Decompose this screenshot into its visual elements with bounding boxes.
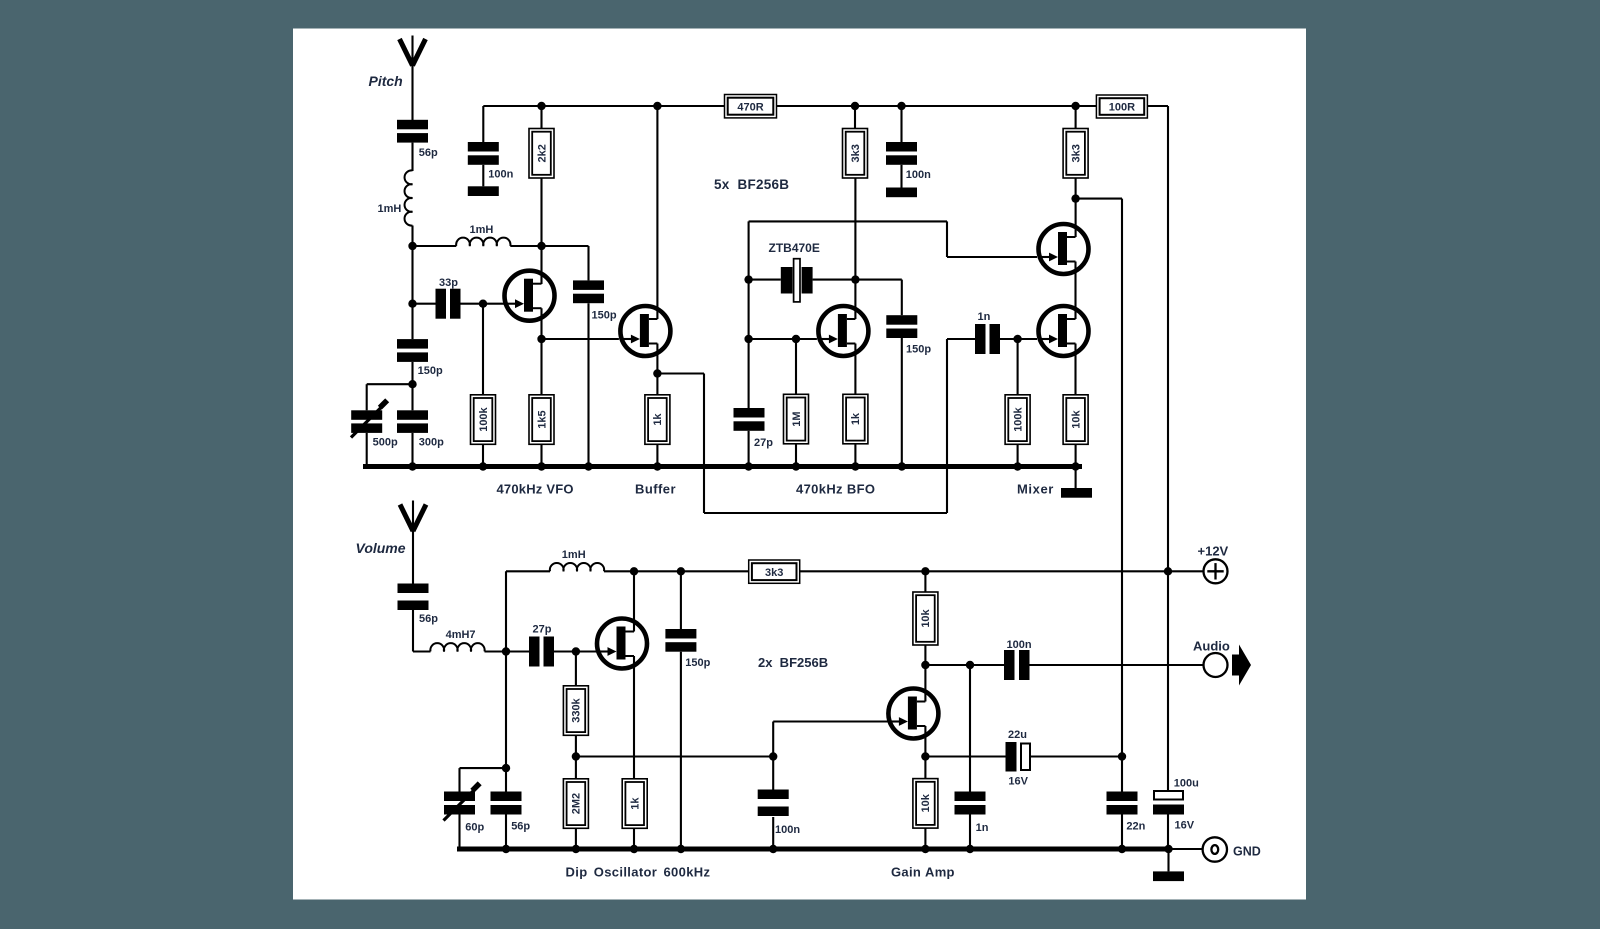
svg-text:GND: GND: [1233, 845, 1261, 859]
wire Q2 source to 1k: [656, 344, 658, 395]
wire 1mH volume row: [506, 570, 550, 572]
trimmer capacitor 500p: [351, 398, 398, 448]
junction dip tank node: [502, 647, 510, 655]
wire source node to 22u: [925, 755, 1005, 757]
wire 3k3 to Q3 drain: [854, 178, 856, 319]
wire buffer output to mixer gate: [657, 372, 704, 374]
wire to 1n gain: [969, 665, 971, 792]
wire gate node to 100k: [482, 304, 484, 395]
junction bias node: [572, 752, 580, 760]
wire dip node down to trimmer row: [505, 652, 507, 769]
wire BFO gate net to mixer top gate: [749, 220, 947, 222]
resistor 2k2: [529, 129, 554, 179]
wire Q4 source to 10k: [1074, 344, 1076, 395]
svg-text:470kHz BFO: 470kHz BFO: [796, 482, 875, 497]
stub rail to bottom ground symbol: [1167, 849, 1169, 871]
svg-text:1n: 1n: [976, 822, 989, 834]
ground symbol (BFO decoupling): [886, 188, 917, 198]
svg-text:500p: 500p: [373, 437, 398, 449]
wire rail to Q2 drain: [656, 106, 658, 319]
wire antenna to 56p: [411, 64, 413, 120]
svg-text:56p: 56p: [511, 821, 530, 833]
junction mixer gate node: [1013, 335, 1021, 343]
wire dip node to 27p: [506, 650, 529, 652]
capacitor 100u 16V (electrolytic): [1153, 778, 1199, 832]
resistor 3k3 (volume feed): [749, 560, 800, 583]
svg-text:56p: 56p: [419, 613, 438, 625]
wire 1M to ground rail: [795, 444, 797, 467]
resistor 3k3 (BFO drain): [843, 129, 868, 179]
wire 22n node down: [1121, 757, 1123, 792]
wire gate node to FET Q1: [483, 303, 504, 305]
wire 150p to 300p: [411, 362, 413, 410]
capacitor 150p (BFO): [886, 315, 931, 355]
terminal GND: [1203, 837, 1261, 861]
junction mixer output node: [1071, 194, 1079, 202]
wire branch to 100n dip: [772, 757, 774, 790]
wire Q7 source to source node: [924, 726, 926, 779]
svg-text:300p: 300p: [419, 437, 444, 449]
wire 150p dip top: [680, 571, 682, 629]
capacitor 100n (dip source): [758, 790, 801, 837]
svg-text:4mH7: 4mH7: [446, 629, 476, 641]
wire 100k to ground rail: [482, 444, 484, 466]
svg-text:100n: 100n: [906, 169, 931, 181]
wire 100n to ground symbol: [482, 165, 484, 187]
svg-text:Pitch: Pitch: [369, 73, 403, 89]
svg-text:22u: 22u: [1008, 729, 1027, 741]
svg-text:1M: 1M: [791, 411, 803, 426]
resistor 1k (buffer): [645, 395, 670, 445]
svg-text:150p: 150p: [685, 657, 710, 669]
wire 100k mixer to ground rail: [1017, 444, 1019, 466]
svg-text:10k: 10k: [920, 793, 932, 812]
wire bias row to gain gate: [576, 755, 773, 757]
wire 33p to gate node: [461, 303, 484, 305]
capacitor 100n (output): [1004, 639, 1032, 680]
capacitor 33p: [436, 277, 461, 319]
capacitor 1n (mixer gate): [975, 311, 1000, 354]
wire 4mH7 to dip node: [485, 650, 507, 652]
wire 60p to ground rail: [458, 815, 460, 850]
wire 1mH coupling to 150p column: [510, 245, 588, 247]
junction rail/3k3 BFO: [851, 102, 859, 110]
wire node A down tank column: [411, 246, 413, 339]
svg-text:1k: 1k: [850, 412, 862, 425]
svg-text:1k5: 1k5: [536, 410, 548, 428]
inductor 4mH7: [430, 629, 484, 652]
wire 2M2 to ground rail: [575, 828, 577, 849]
junction rail/3k3 mixer: [1071, 102, 1079, 110]
junction gain gate branch: [769, 752, 777, 760]
svg-text:2M2: 2M2: [571, 793, 583, 814]
wire crystal node to 150p BFO: [901, 280, 903, 316]
wire 300p to ground rail: [411, 433, 413, 467]
wire gate node to Q4: [1018, 338, 1037, 340]
wire 56p dip to ground rail: [505, 815, 507, 850]
wire 3k3 volume to +12V terminal: [800, 570, 1204, 572]
transistor Q4 (mixer lower, BF256B): [1038, 306, 1089, 356]
wire Q1 source to 1k5: [540, 308, 542, 395]
svg-text:1n: 1n: [978, 311, 991, 323]
junction dots on dip/gain ground rail: [502, 845, 1173, 853]
svg-text:3k3: 3k3: [765, 567, 783, 579]
wire 1k5 to ground rail: [540, 444, 542, 466]
transistor Q3 (470kHz BFO, BF256B): [817, 306, 868, 356]
resistor 330k: [563, 686, 588, 736]
svg-text:22n: 22n: [1126, 821, 1145, 833]
capacitor 150p (dip): [665, 629, 710, 669]
svg-text:100R: 100R: [1109, 102, 1135, 114]
wire 10k to Q7 drain: [924, 645, 926, 702]
capacitor 56p (dip): [491, 792, 531, 833]
junction rail/Q2 drain: [653, 102, 661, 110]
junction Q6 drain/1mH row: [630, 567, 638, 575]
wire 150p dip to ground rail: [680, 652, 682, 849]
svg-text:150p: 150p: [906, 344, 931, 356]
wire 1mH to node A: [411, 226, 413, 247]
wire Q3 source to 1k: [854, 344, 856, 395]
svg-text:Volume: Volume: [356, 540, 406, 556]
inductor 1mH (pitch, vertical): [378, 170, 413, 225]
junction Q6 gate node: [572, 647, 580, 655]
pitch antenna: [400, 36, 426, 68]
terminal +12V: [1198, 544, 1229, 584]
inductor 1mH (volume): [550, 549, 604, 571]
transistor Q2 (buffer, BF256B): [619, 306, 670, 356]
resistor 2M2: [563, 779, 588, 829]
svg-text:60p: 60p: [465, 822, 484, 834]
wire +12V to 10k upper: [924, 571, 926, 592]
svg-text:27p: 27p: [754, 437, 773, 449]
wire crystal right lead: [813, 279, 902, 281]
junction Q2 source node: [653, 369, 661, 377]
svg-text:3k3: 3k3: [850, 144, 862, 162]
svg-text:1k: 1k: [652, 413, 664, 426]
junction Q1 source node: [537, 335, 545, 343]
wire BFO gate row: [749, 338, 817, 340]
audio output arrow: [1232, 645, 1251, 686]
wire gate node to 100k mixer: [1017, 339, 1019, 395]
crystal resonator ZTB470E: [769, 241, 820, 302]
wire 10k lower to ground rail: [924, 828, 926, 849]
wire 100n dip to ground rail: [772, 817, 774, 849]
transistor Q6 (dip oscillator, BF256B): [596, 619, 647, 669]
junction dots on VFO/BFO ground rail: [408, 462, 1080, 470]
wire branch to 500p trimmer: [367, 383, 413, 385]
inductor 1mH (coupling, horizontal): [456, 224, 510, 246]
svg-text:470kHz VFO: 470kHz VFO: [497, 482, 574, 497]
resistor 100k (VFO gate): [471, 395, 496, 445]
svg-text:33p: 33p: [439, 277, 458, 289]
wire rail to 3k3 mixer: [1075, 106, 1077, 129]
wire 10k mixer to ground rail: [1075, 444, 1077, 466]
resistor 10k (mixer source): [1063, 395, 1088, 445]
svg-text:27p: 27p: [533, 624, 552, 636]
svg-text:ZTB470E: ZTB470E: [769, 241, 820, 255]
white schematic page: [293, 29, 1306, 900]
wire source node to Q2 gate: [542, 338, 619, 340]
svg-text:+12V: +12V: [1198, 544, 1229, 559]
junction 22n node: [1118, 752, 1126, 760]
resistor 3k3 (mixer drain): [1063, 129, 1088, 179]
wire 1k BFO to ground rail: [854, 444, 856, 467]
svg-text:100k: 100k: [478, 406, 490, 431]
junction +12V/10k upper: [921, 567, 929, 575]
capacitor 56p (volume): [398, 584, 439, 626]
svg-text:56p: 56p: [419, 147, 438, 159]
svg-text:150p: 150p: [418, 365, 443, 377]
wire down to 150p feedback: [587, 246, 589, 280]
wire 330k to bias node: [575, 735, 577, 779]
wire +12V column to 100u: [1167, 571, 1169, 791]
terminal Audio: [1193, 639, 1230, 678]
transistor Q5 (mixer upper, BF256B): [1038, 224, 1089, 274]
wire rail to 100n BFO: [900, 106, 902, 142]
capacitor 150p (pitch tank): [397, 339, 443, 377]
svg-text:16V: 16V: [1008, 775, 1028, 787]
wire crystal left lead: [749, 279, 781, 281]
junction crystal left: [744, 275, 752, 283]
svg-text:330k: 330k: [571, 697, 583, 722]
svg-text:150p: 150p: [592, 310, 617, 322]
resistor 100k (mixer gate): [1005, 395, 1030, 445]
svg-text:Gain Amp: Gain Amp: [891, 865, 955, 880]
junction 33p row: [408, 300, 416, 308]
svg-text:10k: 10k: [920, 608, 932, 627]
svg-text:Mixer: Mixer: [1017, 482, 1054, 497]
wire 3k3 to Q5 drain: [1075, 178, 1077, 237]
junction drain node VFO: [537, 242, 545, 250]
svg-text:Buffer: Buffer: [635, 482, 676, 497]
svg-text:1mH: 1mH: [470, 224, 494, 236]
svg-text:10k: 10k: [1070, 409, 1082, 428]
capacitor 100n (VFO decoupling): [468, 142, 514, 181]
volume antenna: [400, 501, 426, 534]
junction +12V column: [1164, 567, 1172, 575]
wire 2k2 to Q1 drain: [540, 178, 542, 284]
svg-text:Audio: Audio: [1193, 639, 1230, 654]
capacitor 100n (BFO decoupling): [886, 142, 931, 181]
svg-text:1k: 1k: [630, 797, 642, 810]
resistor 10k (gain source): [913, 779, 938, 829]
svg-text:100n: 100n: [1007, 639, 1032, 651]
resistor 1k (BFO): [843, 394, 868, 444]
VFO/BFO ground rail: [363, 464, 1082, 469]
capacitor 56p (pitch): [397, 120, 438, 159]
capacitor 27p (BFO): [734, 408, 774, 449]
junction audio node: [921, 661, 929, 669]
wire 150p feedback to ground rail: [587, 303, 589, 466]
capacitor 22n: [1107, 792, 1146, 833]
wire Q6 drain to 1mH row: [633, 571, 635, 631]
junction trimmer branch: [408, 380, 416, 388]
capacitor 300p: [397, 410, 444, 448]
wire antenna to 56p volume: [412, 529, 414, 586]
wire 22n to ground rail: [1121, 815, 1123, 850]
wire to 1M: [795, 339, 797, 394]
wire 1k buffer to ground rail: [656, 444, 658, 466]
wire gate node to Q6: [576, 650, 597, 652]
junction BFO gate row: [744, 335, 752, 343]
top supply rail wire: [483, 105, 724, 107]
junction rail/100n BFO: [897, 102, 905, 110]
junction 1M top: [792, 335, 800, 343]
junction gate node VFO: [479, 300, 487, 308]
resistor 100R: [1096, 95, 1147, 118]
wire rail to GND terminal: [1171, 848, 1203, 850]
ground symbol (mixer): [1061, 488, 1092, 498]
wire 56p to 4mH7 corner: [412, 610, 414, 652]
wire 1n to mixer gate node: [1000, 338, 1018, 340]
wire trimmer branch 60p: [460, 767, 507, 769]
svg-text:470R: 470R: [737, 101, 763, 113]
wire 100n BFO to ground symbol: [900, 165, 902, 188]
svg-text:1mH: 1mH: [562, 549, 586, 561]
junction Q7 source node: [921, 752, 929, 760]
wire 1mH to 3k3 volume: [604, 570, 749, 572]
svg-text:100u: 100u: [1174, 778, 1199, 790]
top rail right of 470R: [777, 105, 1097, 107]
resistor 1M: [784, 394, 809, 444]
svg-text:5x BF256B: 5x BF256B: [714, 177, 789, 192]
wire 100n decoupling to rail: [482, 106, 484, 142]
wire rail to 2k2: [540, 106, 542, 129]
ground symbol (supply): [1153, 871, 1184, 881]
wire Q6 source to 1k dip: [633, 656, 635, 779]
wire 500p to ground rail: [366, 433, 368, 467]
resistor 1k5: [529, 395, 554, 445]
svg-text:16V: 16V: [1175, 820, 1195, 832]
wire 22u to 22n node: [1030, 755, 1122, 757]
junction 150p dip/1mH row: [677, 567, 685, 575]
svg-text:100k: 100k: [1012, 406, 1024, 431]
transistor Q1 (470kHz VFO, BF256B): [504, 271, 555, 321]
wire dip node up to 1mH row: [505, 571, 507, 651]
trimmer capacitor 60p: [444, 781, 485, 833]
capacitor 27p (dip): [529, 624, 554, 667]
wire 100n out to audio terminal: [1030, 664, 1205, 666]
junction node A: [408, 242, 416, 250]
ground symbol (VFO decoupling): [468, 186, 499, 196]
wire mixer output to audio stage: [1076, 198, 1122, 200]
dip/gain ground rail: [457, 847, 1171, 852]
wire node to 33p: [413, 303, 436, 305]
wire 1n gain to ground rail: [969, 815, 971, 850]
svg-text:Dip Oscillator 600kHz: Dip Oscillator 600kHz: [566, 865, 711, 880]
resistor 470R: [725, 95, 777, 118]
junction 1n gain top: [966, 661, 974, 669]
stub ground rail to mixer ground symbol: [1075, 467, 1077, 489]
capacitor 150p (VFO feedback): [573, 280, 617, 321]
wire 150p BFO to ground rail: [901, 338, 903, 467]
resistor 10k (gain drain): [913, 592, 938, 645]
transistor Q7 (gain amp, BF256B): [887, 689, 938, 739]
junction trimmer row node: [502, 764, 510, 772]
wire 27p to ground rail: [748, 431, 750, 467]
svg-text:100n: 100n: [775, 824, 800, 836]
svg-text:2k2: 2k2: [536, 144, 548, 162]
wire 100R to +12V column: [1147, 105, 1168, 107]
svg-text:2x BF256B: 2x BF256B: [758, 655, 828, 670]
wire Q5 source to Q4 drain: [1074, 262, 1076, 320]
svg-text:1mH: 1mH: [378, 203, 402, 215]
wire 100u to ground rail: [1167, 815, 1169, 850]
wire 56p to 1mH: [411, 143, 413, 171]
junction crystal right/drain: [851, 275, 859, 283]
wire gain gate riser: [772, 722, 774, 757]
BFO gate net vertical: [748, 221, 750, 408]
capacitor 1n (gain): [955, 792, 989, 835]
svg-text:100n: 100n: [488, 169, 513, 181]
wire rail to 3k3 BFO: [854, 106, 856, 129]
svg-text:3k3: 3k3: [1070, 144, 1082, 162]
wire to 56p dip: [505, 768, 507, 791]
wire 27p to Q6 gate node: [554, 650, 576, 652]
capacitor 22u 16V (electrolytic): [1006, 729, 1031, 788]
wire 1k dip to ground rail: [633, 828, 635, 849]
wire audio node to 100n out: [925, 664, 1004, 666]
resistor 1k (dip): [622, 779, 647, 829]
junction rail/2k2: [537, 102, 545, 110]
wire node A to 1mH coupling: [413, 245, 457, 247]
wire gate node to 330k: [575, 652, 577, 686]
